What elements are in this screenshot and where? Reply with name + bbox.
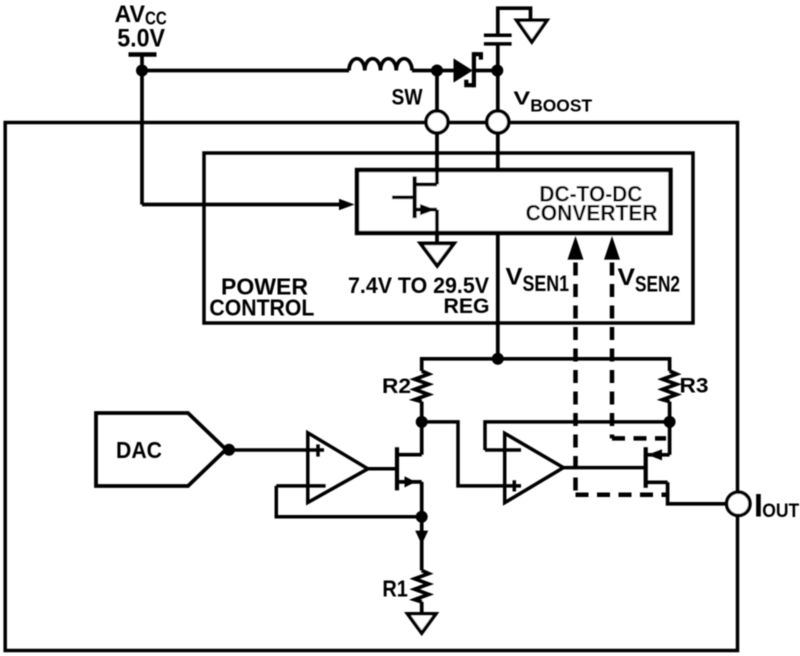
node main rail junction dot [492,353,504,365]
node R3 bottom junction dot [664,416,676,428]
label IOUT [754,488,799,524]
wire VBOOST pin down to main rail node [496,133,500,359]
wire M1 source down [420,482,424,571]
wire M1 drain up to R2 node [420,422,424,455]
svg-text:OUT: OUT [762,500,799,522]
wire AVCC to inductor [142,69,349,73]
svg-text:V: V [513,88,531,109]
chip outline box [5,123,737,651]
wire diode to VBOOST node [476,69,498,73]
wire R2 node to U2 plus input [422,422,521,486]
svg-text:SEN1: SEN1 [523,271,570,296]
wire SW pin down to M3 drain [435,133,439,184]
svg-text:R2: R2 [382,374,411,398]
svg-text:DAC: DAC [116,437,162,463]
label VSEN2 [618,264,681,297]
pin VBOOST circle [487,111,509,133]
node DAC output dot [223,444,235,456]
op-amp U2 minus input wire [485,448,521,452]
label 7.4V TO 29.5V REG [348,273,490,318]
label DC-TO-DC CONVERTER [526,182,658,226]
wire SW node to pin [435,71,439,113]
wire capacitor to ground [498,8,531,35]
ground (top right) [517,20,547,42]
dashed sense line VSEN2 [604,236,666,438]
svg-text:SW: SW [392,84,424,109]
wire VBOOST node to pin [496,71,500,113]
ground (below M3) [420,243,454,265]
diode D1 (Schottky) [454,52,481,87]
op-amp U1 minus input wire [276,484,325,488]
label VSEN1 [506,264,570,297]
resistor R1 [415,570,429,601]
dashed sense line VSEN1 [568,236,668,495]
wire inductor to diode [412,69,454,73]
wire DAC to op-amp U1 [229,448,324,452]
current direction arrow [415,531,428,545]
wire U1 feedback [276,486,421,517]
wire AVCC arrow into regulator [142,203,341,207]
resistor R2 [415,371,429,402]
wire VBOOST node up to capacitor [496,44,500,71]
ground (below R1) [408,614,436,633]
wire M2 source to IOUT pin [668,482,727,504]
pin SW circle [426,111,448,133]
svg-text:REG: REG [444,294,490,318]
wire R1 to ground [420,602,424,614]
wire AVCC vertical [140,55,144,205]
wire rail to R2 [422,359,498,371]
capacitor C1 [484,35,512,44]
node VBOOST top junction dot [491,65,503,77]
svg-text:CONTROL: CONTROL [209,295,314,321]
svg-text:V: V [506,264,523,291]
op-amp U2 [505,433,564,502]
op-amp U1 plus sign [316,444,320,456]
svg-text:V: V [618,264,636,291]
svg-text:BOOST: BOOST [530,95,592,115]
node R2 bottom junction dot [416,416,428,428]
op-amp U2 plus sign [513,480,517,491]
wire SW drain entering box [435,168,439,184]
svg-text:SEN2: SEN2 [635,272,680,297]
label VBOOST [513,88,592,116]
wire R2 to node [420,402,424,422]
svg-text:5.0V: 5.0V [117,25,165,53]
DAC block [96,413,226,486]
POWER CONTROL box [204,153,693,323]
power rail bar AVCC [129,52,157,57]
inductor L1 [349,59,412,71]
svg-text:R1: R1 [382,575,408,601]
wire U2 output to M2 gate [563,466,645,470]
label POWER CONTROL [209,274,314,321]
wire R3 to node [668,402,672,422]
label AVCC [115,1,167,29]
node AVCC junction dot [136,65,148,77]
resistor R3 [663,371,677,402]
svg-text:R3: R3 [680,374,709,398]
wire U1 output to M1 gate [368,467,397,471]
wire M3 source to ground [435,210,439,244]
node SW top junction dot [431,65,443,77]
wire U2 feedback to R3 node [485,422,670,450]
transistor M3 (regulator pass FET) [392,176,437,218]
transistor M2 [646,447,670,488]
regulator inner box [357,170,671,233]
svg-text:CONVERTER: CONVERTER [526,201,658,226]
pin IOUT circle [727,492,750,515]
wire M2 drain up to R3 node [668,422,672,455]
wire rail to R3 [498,359,670,371]
node M1 source junction dot [416,511,428,523]
transistor M1 [397,447,422,490]
op-amp U1 [308,433,368,503]
